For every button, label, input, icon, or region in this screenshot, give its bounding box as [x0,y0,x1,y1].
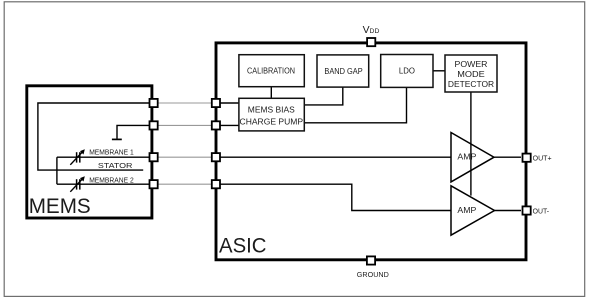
wire MEMS T2 to ASIC T2 (net substrate) [152,124,216,126]
svg-text:STATOR: STATOR [98,161,132,170]
wire membrane 1 [57,156,152,158]
wire substrate to terminal T2 [117,125,152,138]
svg-text:BAND GAP: BAND GAP [324,67,362,76]
terminal GROUND [367,256,375,264]
substrate contact bar [112,138,122,140]
wire membrane link [56,157,58,184]
terminal ASIC T3 [212,153,220,161]
wire band gap to charge pump [304,87,343,105]
wire power mode detector to amps [470,92,472,196]
svg-text:MODE: MODE [457,70,485,79]
svg-text:MEMBRANE 1: MEMBRANE 1 [89,148,134,157]
terminal OUT+ [523,154,531,162]
box POWER MODE DETECTOR [445,55,497,92]
wire membrane 1 input to AMP1 [216,156,451,158]
svg-text:AMP: AMP [457,152,476,161]
svg-text:CALIBRATION: CALIBRATION [247,66,295,75]
box BAND GAP [317,55,369,87]
op-amp AMP2 [451,186,495,235]
wire MEMS T4 to ASIC T4 (net membrane 2) [152,183,216,185]
terminal MEMS T3 [150,153,158,161]
svg-text:ASIC: ASIC [219,234,267,258]
svg-text:CHARGE PUMP: CHARGE PUMP [240,117,304,126]
svg-text:LDO: LDO [399,66,415,75]
box CALIBRATION [239,55,304,87]
wire stator loop to terminal T1 [38,103,152,170]
capacitor C1 membrane 1 [70,149,85,165]
terminal ASIC T1 [212,99,220,107]
wire AMP2 output to OUT- [495,210,522,212]
wire MEMS T1 to ASIC T1 (net stator) [152,102,216,104]
box MEMS BIAS CHARGE PUMP [239,98,304,131]
terminal MEMS T2 [150,121,158,129]
terminal MEMS T4 [150,180,158,188]
svg-text:OUT-: OUT- [533,207,550,216]
wire calibration to charge pump [270,87,272,99]
terminal ASIC T2 [212,121,220,129]
wire ASIC T2 to charge pump [216,124,239,126]
svg-text:MEMS: MEMS [29,194,91,218]
terminal OUT- [523,206,531,214]
svg-text:DETECTOR: DETECTOR [448,80,494,89]
terminal ASIC T4 [212,180,220,188]
block MEMS [27,86,152,218]
wire membrane 2 input to AMP2 [216,184,451,210]
op-amp AMP1 [451,133,494,182]
svg-text:AMP: AMP [457,206,476,215]
terminal MEMS T1 [150,99,158,107]
svg-text:MEMS BIAS: MEMS BIAS [248,105,295,114]
wire membrane 2 [57,183,152,185]
capacitor C2 membrane 2 [70,176,85,192]
svg-text:POWER: POWER [455,60,488,69]
block ASIC [216,43,526,260]
svg-text:OUT+: OUT+ [533,153,552,162]
svg-text:GROUND: GROUND [357,270,390,279]
wire AMP1 output to OUT+ [494,156,521,158]
wire LDO to charge pump [304,87,406,122]
box LDO [381,55,433,88]
wire LDO to power mode detector [433,70,445,72]
terminal VDD [367,38,375,46]
svg-text:MEMBRANE 2: MEMBRANE 2 [89,176,134,185]
wire MEMS T3 to ASIC T3 (net membrane 1) [152,156,216,158]
wire ASIC T1 to charge pump [216,102,239,104]
